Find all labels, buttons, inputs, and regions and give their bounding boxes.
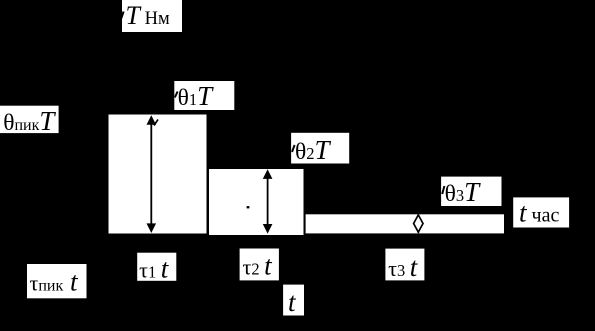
double arrow theta2 (height of bar 2) [263, 169, 273, 233]
label theta3 T [441, 177, 501, 207]
small dot in bar 2 [247, 206, 250, 208]
label theta1 T [174, 81, 234, 111]
label t (total time) [283, 285, 304, 317]
bar 2 (second torque step) [209, 169, 304, 235]
label tau_pik t [27, 264, 87, 298]
label tau2 t [240, 249, 279, 281]
leader tick inside bar 1 [154, 120, 158, 126]
label tau3 t [385, 249, 424, 282]
bar 3 (third torque step) [306, 214, 504, 233]
label T Nm (torque axis) [121, 0, 182, 32]
label theta2 T [291, 133, 349, 165]
double arrow theta1 (height of bar 1) [147, 115, 157, 233]
label theta_pik T [0, 106, 59, 136]
bar 1 (peak torque step) [109, 115, 207, 234]
label tau1 t [137, 253, 176, 284]
double arrow theta3 (height of bar 3, small diamond form) [414, 214, 423, 233]
label t hours (time axis) [513, 197, 569, 227]
